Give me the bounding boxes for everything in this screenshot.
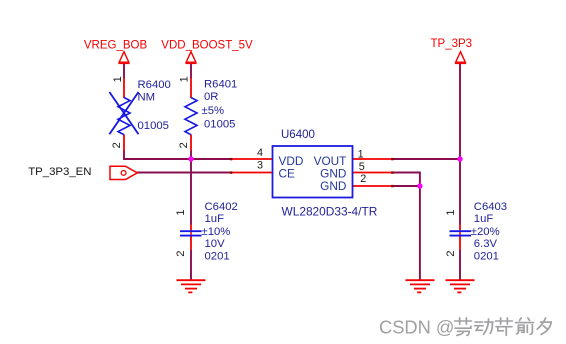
svg-text:1: 1: [112, 76, 124, 82]
svg-text:TP_3P3_EN: TP_3P3_EN: [28, 166, 91, 178]
svg-text:WL2820D33-4/TR: WL2820D33-4/TR: [282, 205, 378, 219]
svg-text:±5%: ±5%: [202, 105, 225, 117]
svg-text:VREG_BOB: VREG_BOB: [84, 39, 148, 51]
svg-text:1: 1: [175, 209, 187, 215]
svg-text:R6401: R6401: [204, 78, 237, 90]
svg-text:C6402: C6402: [205, 201, 238, 213]
svg-text:1uF: 1uF: [205, 213, 225, 225]
svg-text:1: 1: [358, 148, 364, 160]
svg-text:1: 1: [179, 76, 191, 82]
svg-text:2: 2: [445, 250, 457, 256]
svg-text:2: 2: [175, 250, 187, 256]
svg-text:CE: CE: [279, 167, 296, 181]
svg-text:6.3V: 6.3V: [474, 238, 498, 250]
svg-text:±20%: ±20%: [471, 226, 500, 238]
svg-text:TP_3P3: TP_3P3: [431, 38, 473, 50]
svg-text:2: 2: [360, 173, 366, 185]
svg-text:0201: 0201: [474, 251, 499, 263]
svg-text:10V: 10V: [205, 238, 226, 250]
svg-text:0R: 0R: [204, 91, 218, 103]
svg-text:4: 4: [257, 147, 263, 159]
svg-text:C6403: C6403: [474, 201, 507, 213]
svg-text:U6400: U6400: [281, 129, 315, 141]
svg-text:1uF: 1uF: [474, 213, 494, 225]
svg-text:5: 5: [359, 161, 365, 173]
svg-text:01005: 01005: [204, 118, 235, 130]
svg-text:±10%: ±10%: [202, 226, 231, 238]
svg-text:2: 2: [178, 142, 190, 148]
svg-text:NM: NM: [138, 92, 156, 104]
svg-text:VDD_BOOST_5V: VDD_BOOST_5V: [161, 39, 253, 51]
svg-text:3: 3: [257, 159, 263, 171]
svg-text:1: 1: [445, 209, 457, 215]
svg-text:R6400: R6400: [138, 79, 171, 91]
svg-text:01005: 01005: [138, 120, 169, 132]
svg-text:GND: GND: [320, 179, 346, 193]
svg-text:2: 2: [111, 142, 123, 148]
svg-text:0201: 0201: [205, 251, 230, 263]
svg-text:CSDN @: CSDN @: [379, 316, 454, 337]
